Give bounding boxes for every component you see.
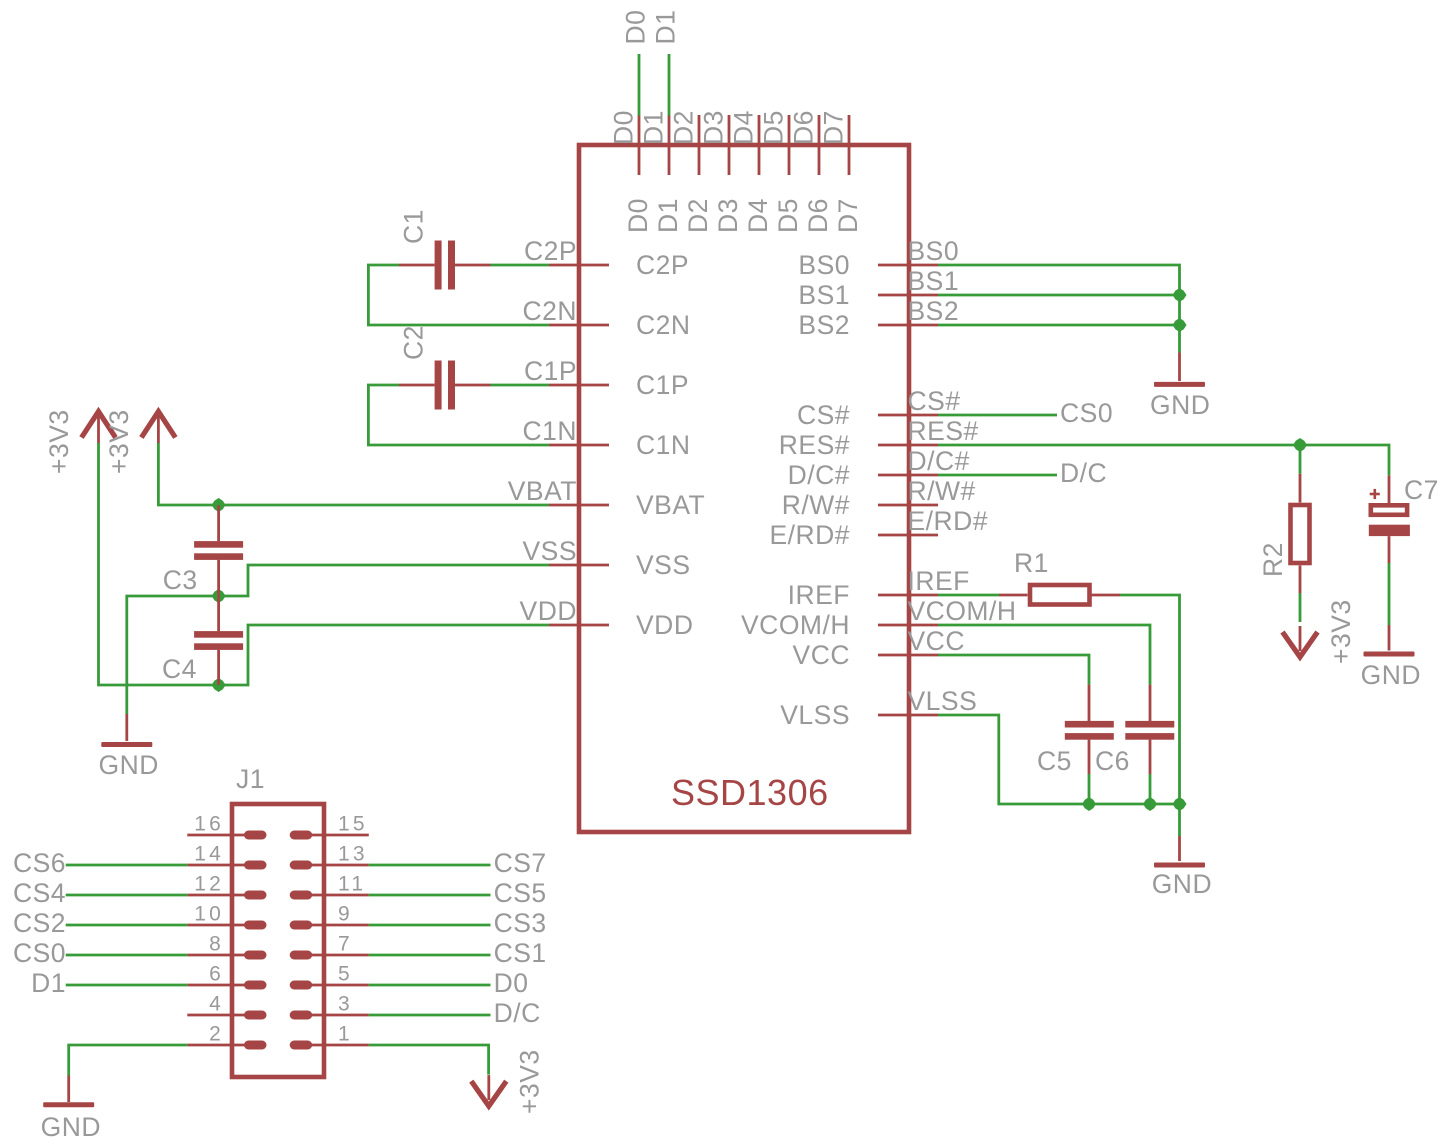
svg-text:2: 2	[209, 1023, 224, 1046]
pin 13 of J1 (right) with pad and number	[290, 843, 369, 870]
capacitor C1	[435, 241, 455, 290]
svg-text:BS1: BS1	[908, 266, 960, 296]
svg-text:11: 11	[338, 873, 366, 896]
pin leads of C6	[1149, 685, 1152, 804]
svg-text:E/RD#: E/RD#	[769, 520, 850, 550]
wire from R1 right to VLSS/GND rail	[1120, 595, 1180, 804]
capacitor C2	[435, 361, 455, 410]
pin D4 of U1 (top side) with name labels	[729, 110, 774, 233]
wire net CS2 (J1 left)	[66, 924, 188, 927]
svg-text:D2: D2	[683, 198, 713, 233]
svg-text:1: 1	[338, 1023, 353, 1046]
junction node VSS / C3-C4 midpoint	[212, 589, 226, 603]
svg-text:D6: D6	[789, 110, 819, 145]
wire net D0 (J1 right)	[369, 984, 491, 987]
pin BS1 of U1 (right side) with name and net label	[798, 266, 959, 310]
svg-text:VCOM/H: VCOM/H	[908, 596, 1017, 626]
svg-text:C5: C5	[1037, 746, 1072, 776]
+3V3 supply symbol (below J1 pin 1, pointing down)	[471, 1075, 506, 1106]
capacitor C7 (polarized)	[1369, 475, 1410, 563]
svg-text:J1: J1	[236, 764, 265, 794]
capacitor C5	[1065, 721, 1114, 740]
pin BS2 of U1 (right side) with name and net label	[798, 296, 959, 340]
svg-text:VSS: VSS	[522, 536, 577, 566]
svg-text:C2N: C2N	[636, 310, 691, 340]
wire net D0 (top)	[638, 54, 641, 116]
pin 12 of J1 (left) with pad and number	[187, 873, 266, 900]
svg-text:E/RD#: E/RD#	[908, 506, 989, 536]
pin C2P of U1 (left side) with name and net label	[524, 236, 689, 280]
wire net CS4 (J1 left)	[66, 894, 188, 897]
svg-text:D3: D3	[699, 110, 729, 145]
svg-text:CS#: CS#	[797, 400, 850, 430]
wire net C2P right segment (C1 to C2P pin)	[491, 264, 550, 267]
svg-text:VDD: VDD	[520, 596, 577, 626]
pin VSS of U1 (left side) with name and net label	[522, 536, 690, 580]
svg-text:D1: D1	[31, 968, 66, 998]
svg-text:D5: D5	[759, 110, 789, 145]
junction node BS1/GND rail	[1173, 288, 1187, 302]
pin 8 of J1 (left) with pad and number	[187, 933, 266, 960]
pin D5 of U1 (top side) with name labels	[759, 110, 804, 233]
svg-text:12: 12	[194, 873, 224, 896]
svg-text:VCC: VCC	[908, 626, 965, 656]
svg-text:BS0: BS0	[798, 250, 850, 280]
junction node VDD / C4 bottom	[212, 678, 226, 692]
junction node C6/bottom rail	[1143, 797, 1157, 811]
svg-text:CS4: CS4	[13, 878, 66, 908]
junction node RES#/R2	[1293, 438, 1307, 452]
pin RES# of U1 (right side) with name and net label	[779, 416, 979, 460]
pin leads of C4	[217, 596, 220, 685]
svg-text:C2N: C2N	[522, 296, 577, 326]
svg-text:D1: D1	[651, 10, 681, 45]
pin VCOM/H of U1 (right side) with name and net label	[741, 596, 1017, 640]
wire from RES# junction down to R2	[1299, 445, 1302, 474]
svg-text:D/C: D/C	[1060, 458, 1107, 488]
svg-text:R1: R1	[1014, 548, 1049, 578]
svg-text:CS0: CS0	[13, 938, 66, 968]
svg-text:CS7: CS7	[494, 848, 547, 878]
wire net IREF from U1 to R1	[938, 594, 999, 597]
pin CS# of U1 (right side) with name and net label	[797, 386, 961, 430]
svg-text:VLSS: VLSS	[780, 700, 850, 730]
svg-text:D0: D0	[609, 110, 639, 145]
wire net BS1	[938, 294, 1180, 297]
svg-text:+3V3: +3V3	[44, 409, 74, 474]
pin leads of C2	[399, 384, 491, 387]
capacitor C3	[194, 541, 243, 560]
pin D0 of U1 (top side) with name labels	[609, 110, 654, 233]
svg-text:C1P: C1P	[636, 370, 689, 400]
svg-text:D0: D0	[621, 10, 651, 45]
svg-text:BS2: BS2	[908, 296, 960, 326]
pin D1 of U1 (top side) with name labels	[639, 110, 684, 233]
wire net RES# from RES# pin to C7	[938, 445, 1389, 475]
pin 11 of J1 (right) with pad and number	[290, 873, 369, 900]
svg-text:R/W#: R/W#	[782, 490, 850, 520]
resistor R1	[999, 585, 1120, 605]
junction node C5/bottom rail	[1082, 797, 1096, 811]
wire net GND from J1 pin 2	[69, 1045, 188, 1076]
svg-text:BS0: BS0	[908, 236, 960, 266]
wire net CS3 (J1 right)	[369, 924, 491, 927]
svg-text:GND: GND	[1150, 390, 1210, 420]
wire net D1 (J1 left)	[66, 984, 188, 987]
svg-text:D7: D7	[819, 110, 849, 145]
svg-text:IREF: IREF	[908, 566, 970, 596]
pin 3 of J1 (right) with pad and number	[290, 993, 369, 1020]
wire net VCOMH from U1 down to C6	[938, 625, 1150, 685]
wire from C7 down to GND	[1388, 563, 1391, 625]
svg-text:D1: D1	[653, 198, 683, 233]
wire from R2 down to +3V3	[1299, 593, 1302, 622]
svg-text:D/C#: D/C#	[788, 460, 850, 490]
pin 4 of J1 (left) with pad and number	[187, 993, 266, 1020]
pin E/RD# of U1 (right side) with name and net label	[769, 506, 988, 550]
IC U1 SSD1306 body	[579, 145, 909, 832]
ground symbol GND (bottom right rail)	[1152, 804, 1212, 899]
pin 1 of J1 (right) with pad and number	[290, 1023, 369, 1050]
svg-text:4: 4	[209, 993, 224, 1016]
svg-text:C1P: C1P	[524, 356, 577, 386]
svg-text:16: 16	[194, 813, 224, 836]
svg-text:CS0: CS0	[1060, 398, 1113, 428]
pin D6 of U1 (top side) with name labels	[789, 110, 834, 233]
wire net +3V3 from J1 pin 1	[369, 1045, 489, 1075]
pin 6 of J1 (left) with pad and number	[187, 963, 266, 990]
wire net CS0 (J1 left)	[66, 954, 188, 957]
svg-text:SSD1306: SSD1306	[671, 772, 829, 813]
pin 14 of J1 (left) with pad and number	[187, 843, 266, 870]
junction node rail/GND	[1173, 797, 1187, 811]
ground symbol GND (below J1 pin 2)	[41, 1076, 101, 1143]
svg-text:GND: GND	[1361, 660, 1421, 690]
svg-text:D3: D3	[713, 198, 743, 233]
pin C1P of U1 (left side) with name and net label	[524, 356, 689, 400]
svg-text:C2P: C2P	[524, 236, 577, 266]
svg-text:BS2: BS2	[798, 310, 850, 340]
svg-text:D4: D4	[743, 198, 773, 233]
polarity + mark of C7	[1370, 489, 1380, 499]
junction node VBAT / C3 top	[212, 498, 226, 512]
ground symbol GND (left, VSS)	[99, 714, 159, 780]
wire net VBAT from +3V3 down and right to U1 VBAT pin	[158, 443, 549, 505]
svg-text:CS2: CS2	[13, 908, 66, 938]
wire net CS1 (J1 right)	[369, 954, 491, 957]
wire net VDD from +3V3 down, right, up to U1 VDD pin	[99, 443, 550, 685]
wire net C1P right segment (C2 to C1P pin)	[491, 384, 550, 387]
pin 2 of J1 (left) with pad and number	[187, 1023, 266, 1050]
svg-text:13: 13	[338, 843, 368, 866]
capacitor C4	[194, 631, 243, 650]
pin IREF of U1 (right side) with name and net label	[788, 566, 970, 610]
+3V3 supply symbol (below R2, pointing down)	[1283, 626, 1318, 657]
svg-text:3: 3	[338, 993, 353, 1016]
pin D7 of U1 (top side) with name labels	[819, 110, 864, 233]
svg-text:CS5: CS5	[494, 878, 547, 908]
svg-text:CS3: CS3	[494, 908, 547, 938]
svg-text:D0: D0	[494, 968, 529, 998]
svg-text:5: 5	[338, 963, 353, 986]
resistor R2	[1291, 474, 1310, 593]
svg-text:D0: D0	[623, 198, 653, 233]
pin C2N of U1 (left side) with name and net label	[522, 296, 690, 340]
svg-text:C1N: C1N	[636, 430, 691, 460]
pin leads of C3	[217, 505, 220, 596]
pin 5 of J1 (right) with pad and number	[290, 963, 369, 990]
svg-text:+3V3: +3V3	[104, 409, 134, 474]
svg-text:C1: C1	[399, 209, 429, 244]
svg-text:RES#: RES#	[779, 430, 850, 460]
svg-text:VCC: VCC	[793, 640, 850, 670]
svg-text:CS1: CS1	[494, 938, 547, 968]
svg-text:R/W#: R/W#	[908, 476, 976, 506]
svg-text:GND: GND	[99, 750, 159, 780]
svg-text:IREF: IREF	[788, 580, 850, 610]
pin BS0 of U1 (right side) with name and net label	[798, 236, 959, 280]
svg-text:6: 6	[209, 963, 224, 986]
svg-text:D/C#: D/C#	[908, 446, 970, 476]
svg-text:D5: D5	[773, 198, 803, 233]
pin 7 of J1 (right) with pad and number	[290, 933, 369, 960]
wire net C2P loop (C1 left/down/right to C2N pin)	[368, 265, 549, 325]
pin C1N of U1 (left side) with name and net label	[522, 416, 690, 460]
svg-text:D/C: D/C	[494, 998, 541, 1028]
svg-text:R2: R2	[1258, 542, 1288, 577]
svg-text:C3: C3	[163, 565, 198, 595]
svg-text:D1: D1	[639, 110, 669, 145]
wire net D/C from D/C# pin	[938, 474, 1057, 477]
svg-text:D7: D7	[833, 198, 863, 233]
svg-text:C4: C4	[162, 654, 197, 684]
pin D/C# of U1 (right side) with name and net label	[788, 446, 970, 490]
pin VBAT of U1 (left side) with name and net label	[508, 476, 706, 520]
wire net CS5 (J1 right)	[369, 894, 491, 897]
svg-text:BS1: BS1	[798, 280, 850, 310]
svg-text:VDD: VDD	[636, 610, 693, 640]
svg-text:C7: C7	[1404, 475, 1439, 505]
wire net BS0 to GND rail	[938, 265, 1180, 353]
svg-text:9: 9	[338, 903, 353, 926]
ground symbol GND (below C7)	[1361, 625, 1421, 690]
wire net VLSS from U1 down to bottom rail	[938, 715, 1180, 804]
wire net CS6 (J1 left)	[66, 864, 188, 867]
pin 15 of J1 (right) with pad and number	[290, 813, 369, 840]
svg-text:D2: D2	[669, 110, 699, 145]
wire net D/C (J1 right)	[369, 1014, 491, 1017]
svg-text:7: 7	[338, 933, 353, 956]
+3V3 supply symbol (VDD rail)	[82, 412, 116, 444]
ground symbol GND (BS pins)	[1150, 353, 1210, 421]
pin 9 of J1 (right) with pad and number	[290, 903, 369, 930]
capacitor C6	[1125, 721, 1174, 740]
svg-text:VSS: VSS	[636, 550, 691, 580]
pin leads of C5	[1088, 685, 1091, 804]
svg-text:CS6: CS6	[13, 848, 66, 878]
pin 16 of J1 (left) with pad and number	[187, 813, 266, 840]
wire net BS2	[938, 324, 1180, 327]
pin R/W# of U1 (right side) with name and net label	[782, 476, 976, 520]
pin D2 of U1 (top side) with name labels	[669, 110, 714, 233]
pin VCC of U1 (right side) with name and net label	[793, 626, 965, 670]
wire net VSS from U1 VSS pin left and down to GND	[127, 565, 549, 714]
svg-text:15: 15	[338, 813, 368, 836]
connector J1 body	[232, 804, 324, 1077]
wire net CS7 (J1 right)	[369, 864, 491, 867]
svg-text:+3V3: +3V3	[1326, 599, 1356, 664]
pin D3 of U1 (top side) with name labels	[699, 110, 744, 233]
wire net C1P loop (C2 left/down/right to C1N pin)	[368, 385, 549, 445]
svg-text:+3V3: +3V3	[514, 1049, 544, 1114]
svg-text:D4: D4	[729, 110, 759, 145]
svg-text:CS#: CS#	[908, 386, 961, 416]
junction node BS2/GND rail	[1173, 318, 1187, 332]
svg-text:C2: C2	[399, 325, 429, 360]
svg-text:14: 14	[194, 843, 224, 866]
svg-text:VCOM/H: VCOM/H	[741, 610, 850, 640]
svg-text:VLSS: VLSS	[908, 686, 978, 716]
svg-text:C6: C6	[1095, 746, 1130, 776]
svg-text:GND: GND	[1152, 869, 1212, 899]
pin leads of C1	[399, 264, 491, 267]
pin 10 of J1 (left) with pad and number	[187, 903, 266, 930]
pin VDD of U1 (left side) with name and net label	[520, 596, 694, 640]
wire net D1 (top)	[668, 54, 671, 116]
svg-text:VBAT: VBAT	[636, 490, 705, 520]
svg-text:8: 8	[209, 933, 224, 956]
svg-text:C2P: C2P	[636, 250, 689, 280]
svg-text:C1N: C1N	[522, 416, 577, 446]
wire net VCC from U1 down to C5	[938, 655, 1089, 685]
svg-text:10: 10	[194, 903, 224, 926]
svg-text:D6: D6	[803, 198, 833, 233]
svg-text:VBAT: VBAT	[508, 476, 577, 506]
pin VLSS of U1 (right side) with name and net label	[780, 686, 977, 730]
wire net CS0 from CS# pin	[938, 414, 1057, 417]
svg-text:RES#: RES#	[908, 416, 979, 446]
svg-text:GND: GND	[41, 1112, 101, 1142]
+3V3 supply symbol (VBAT rail)	[141, 412, 175, 444]
